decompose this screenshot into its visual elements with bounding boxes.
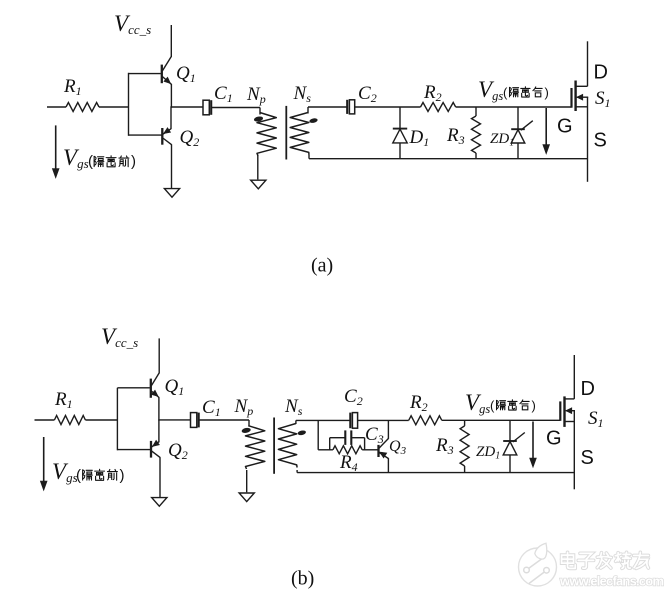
svg-text:R1: R1 — [63, 76, 82, 98]
wire Ns to C2 (b) — [296, 419, 350, 421]
wire C1 to Np (b) — [200, 419, 250, 421]
resistor R4 (b) — [333, 446, 362, 454]
svg-text:Np: Np — [246, 84, 266, 106]
wire to Q2 base (b) — [117, 449, 150, 451]
wire to ZD1 (a) — [517, 107, 519, 129]
wire Q2 collector down (b) — [159, 457, 161, 497]
dot Np (b) — [241, 427, 251, 434]
wire node to C1 (b) — [159, 419, 191, 421]
wire node to Q2 emitter (a) — [170, 106, 172, 129]
svg-text:C2: C2 — [358, 83, 377, 105]
bottom rail (a) — [309, 158, 588, 160]
Ns bottom stub (b) — [296, 470, 298, 473]
svg-text:Q2: Q2 — [168, 440, 188, 462]
capacitor C3 branch (b) — [329, 438, 331, 450]
wire C2 to R2 (a) — [355, 106, 421, 108]
wire Np to ground (b) — [246, 470, 248, 492]
drain wire (b) — [573, 355, 575, 399]
svg-text:R2: R2 — [423, 82, 442, 104]
base rail vertical (a) — [128, 73, 130, 136]
wire R3 to bottom rail (b) — [464, 466, 466, 472]
wire ZD1 to bottom rail (a) — [517, 143, 519, 159]
svg-text:www.elecfans.com: www.elecfans.com — [559, 574, 664, 589]
wire R3 to bottom rail (a) — [475, 153, 477, 159]
wire R2 to gate (b) — [442, 419, 561, 421]
wire to ZD1 (b) — [509, 420, 511, 441]
svg-text:S1: S1 — [595, 88, 611, 110]
svg-text:Q1: Q1 — [165, 376, 185, 398]
arrow Vgs(before) (b) — [43, 437, 45, 482]
svg-text:ZD1: ZD1 — [490, 131, 514, 149]
Ns top stub (a) — [307, 107, 309, 114]
winding Np (b) — [246, 426, 265, 469]
svg-text:): ) — [545, 85, 549, 100]
svg-text:ZD1: ZD1 — [476, 444, 500, 462]
Ns top stub (b) — [295, 420, 297, 424]
svg-text:C2: C2 — [344, 386, 363, 408]
transistor Q2 (a) — [162, 128, 171, 145]
wire Vcc to Q1 collector (a) — [170, 25, 172, 57]
svg-text:Vgs: Vgs — [478, 77, 503, 103]
dot Ns (a) — [309, 118, 318, 124]
diode D1 (a) — [393, 128, 407, 130]
transistor Q3 (b) — [379, 439, 389, 459]
svg-text:S1: S1 — [588, 408, 604, 430]
resistor R2 (a) — [421, 103, 456, 112]
wire D1 to bottom rail (a) — [399, 143, 401, 159]
transformer core (b) — [273, 418, 275, 474]
svg-text:(a): (a) — [311, 255, 333, 277]
zener ZD1 (b) — [503, 440, 517, 442]
svg-text:C3: C3 — [365, 424, 384, 446]
resistor R1 (a) — [66, 103, 99, 112]
svg-text:G: G — [546, 428, 562, 450]
wire input (b) — [35, 419, 55, 421]
svg-text:(b): (b) — [291, 568, 314, 590]
svg-text:(: ( — [490, 398, 495, 413]
svg-text:Vgs: Vgs — [63, 145, 89, 171]
wire to D1 (a) — [399, 107, 401, 128]
capacitor C2 (a) — [349, 100, 354, 114]
ground under Q2 (a) — [164, 189, 179, 198]
transformer primary Np (b) — [248, 420, 250, 427]
wire R1 to base rail (a) — [99, 106, 129, 108]
svg-text:S: S — [594, 130, 607, 152]
wire C1 to Np (a) — [212, 107, 260, 109]
resistor R3 (a) — [472, 116, 481, 153]
ground under Np (a) — [251, 180, 266, 189]
resistor R2 (b) — [409, 416, 442, 425]
wire node to Q2 emitter (b) — [158, 420, 160, 443]
svg-text:Ns: Ns — [284, 396, 303, 418]
wire down to R4 branch (b) — [317, 420, 319, 449]
svg-text:S: S — [581, 447, 594, 469]
wire Q1 emitter to node (a) — [170, 84, 172, 108]
ground under Np (b) — [239, 493, 254, 502]
svg-text:Ns: Ns — [293, 83, 312, 105]
wire to R4 (b) — [318, 449, 333, 451]
svg-text:C1: C1 — [214, 83, 233, 105]
svg-text:Q1: Q1 — [176, 63, 196, 85]
svg-text:R3: R3 — [446, 125, 465, 147]
svg-text:Vgs: Vgs — [52, 459, 78, 485]
MOSFET S1 (a) — [572, 81, 589, 112]
svg-text:Q2: Q2 — [180, 127, 200, 149]
source wire (a) — [587, 97, 589, 182]
ground under Q2 (b) — [152, 498, 167, 507]
svg-text:R4: R4 — [339, 452, 358, 474]
capacitor C1 (a) — [203, 100, 209, 115]
transistor Q2 (b) — [151, 441, 160, 458]
wire R1 to base rail (b) — [85, 419, 117, 421]
transistor Q1 (a) — [162, 57, 172, 85]
arrow Vgs(after) (a) — [545, 108, 547, 146]
svg-text:): ) — [120, 467, 125, 484]
transformer core (a) — [285, 106, 287, 160]
Ns bottom stub (a) — [308, 155, 310, 159]
svg-text:): ) — [131, 153, 136, 170]
wire Q3 collector to bottom rail (b) — [387, 458, 389, 473]
drain wire (a) — [587, 41, 589, 86]
wire input (a) — [47, 106, 66, 108]
svg-text:Np: Np — [234, 396, 254, 418]
watermark logo — [519, 543, 557, 586]
svg-text:Vgs: Vgs — [465, 390, 490, 416]
svg-text:D: D — [594, 62, 608, 84]
zener ZD1 (a) — [511, 128, 525, 130]
svg-text:G: G — [557, 116, 573, 138]
svg-text:R2: R2 — [409, 392, 428, 414]
bottom rail (b) — [297, 472, 574, 474]
capacitor C2 (b) — [352, 413, 357, 429]
wire Np to ground (a) — [257, 155, 259, 179]
dot Ns (b) — [297, 430, 306, 436]
arrow Vgs(after) (b) — [532, 422, 534, 460]
base rail vertical (b) — [116, 388, 118, 451]
winding Np (a) — [257, 113, 276, 156]
svg-text:R3: R3 — [435, 435, 454, 457]
wire to Q1 base (a) — [129, 73, 161, 75]
svg-text:): ) — [532, 398, 536, 413]
svg-text:(: ( — [76, 467, 81, 484]
MOSFET S1 (b) — [560, 396, 575, 427]
transistor Q1 (b) — [151, 373, 159, 398]
dot Np (a) — [254, 116, 264, 123]
wire Vcc to Q1 collector (b) — [158, 338, 160, 373]
svg-text:C1: C1 — [202, 397, 221, 419]
svg-text:Vcc_s: Vcc_s — [101, 324, 138, 350]
svg-text:(: ( — [88, 153, 93, 170]
wire to R3 (b) — [464, 420, 466, 426]
wire Q1 emitter to node (b) — [158, 397, 160, 421]
wire to R3 (a) — [475, 107, 477, 116]
svg-text:D: D — [581, 378, 595, 400]
resistor R1 (b) — [54, 416, 85, 425]
svg-text:Vcc_s: Vcc_s — [114, 11, 151, 37]
wire C2 to R2 (b) — [358, 419, 409, 421]
transformer primary Np (a) — [259, 108, 261, 115]
wire Q3 emitter to rail (b) — [387, 420, 389, 439]
wire to Q2 base (a) — [129, 134, 162, 136]
winding Ns (b) — [278, 424, 297, 468]
wire R2 to gate (a) — [456, 106, 572, 108]
svg-text:Q3: Q3 — [389, 438, 407, 457]
wire node to C1 (a) — [171, 106, 203, 108]
resistor R3 (b) — [460, 426, 469, 466]
svg-text:D1: D1 — [409, 127, 430, 149]
arrow Vgs(before) (a) — [55, 125, 57, 170]
winding Ns (a) — [290, 113, 309, 155]
svg-text:(: ( — [503, 85, 508, 100]
svg-text:R1: R1 — [54, 389, 73, 411]
wire ZD1 to bottom rail (b) — [509, 455, 511, 472]
capacitor C1 (b) — [191, 413, 197, 428]
wire Ns to C2 (a) — [308, 106, 347, 108]
watermark text 电子发烧友 — [562, 552, 649, 568]
wire R4 to Q3 base (b) — [362, 449, 378, 451]
wire Q2 collector down (a) — [171, 144, 173, 188]
source wire (b) — [573, 411, 575, 490]
wire to Q1 base (b) — [117, 387, 149, 389]
